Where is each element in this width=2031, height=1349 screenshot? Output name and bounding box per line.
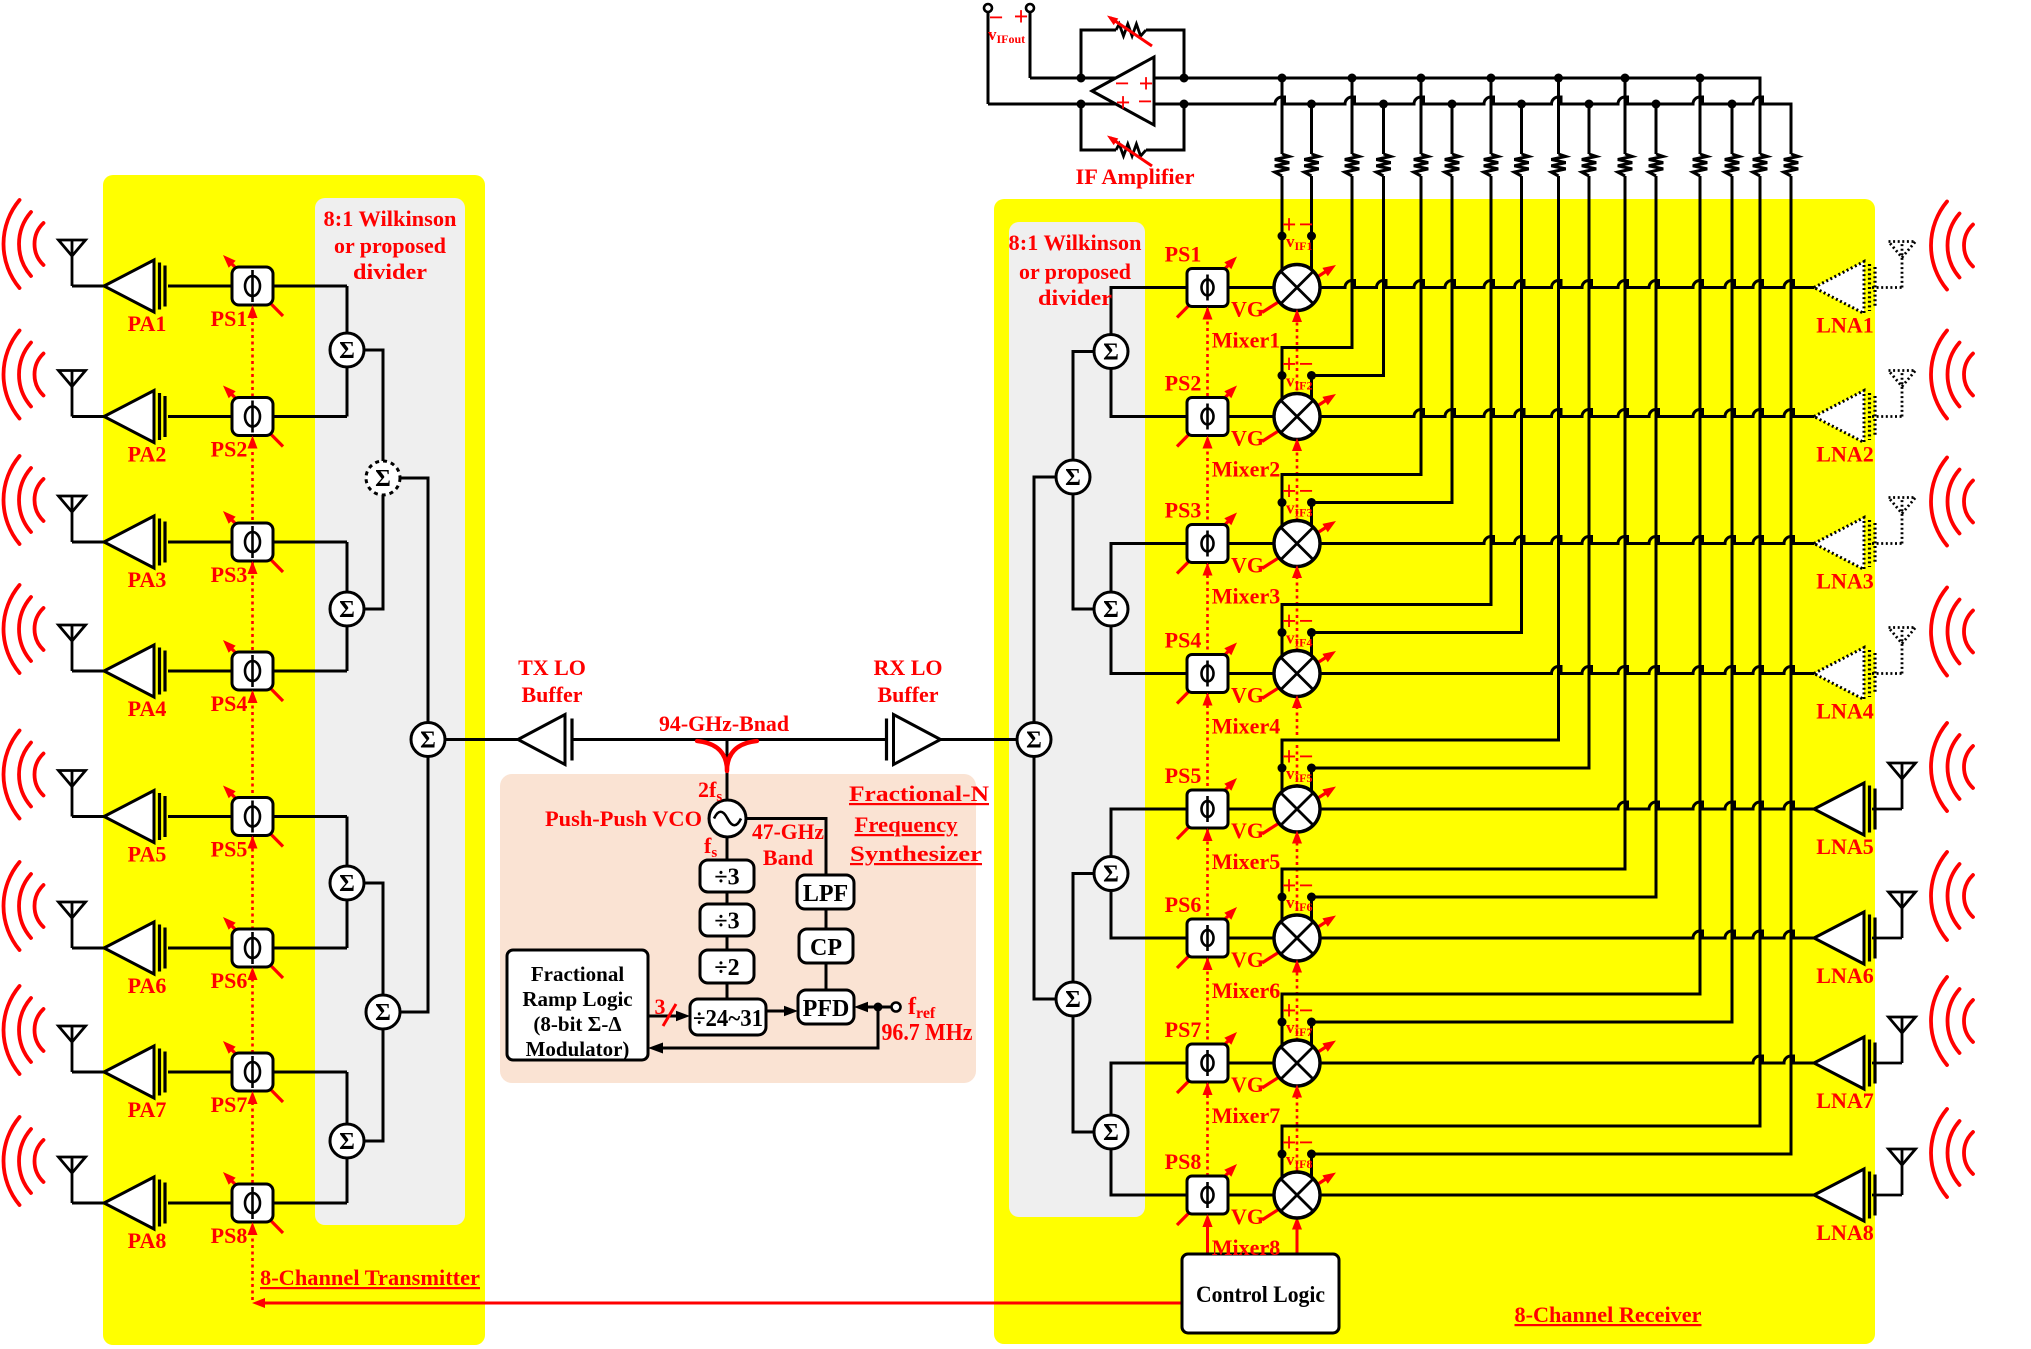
wire LNA1 to antenna [1872, 286, 1902, 289]
resistor IF + channel 8 [1753, 154, 1767, 176]
label LNA4 [1816, 699, 1873, 724]
svg-text:PS1: PS1 [211, 306, 248, 331]
phase shifter PS3 (TX) [223, 511, 283, 572]
feedback wire fref to fractional ramp logic [648, 1007, 878, 1054]
IF summing bus (- rail with hops) [1154, 97, 1791, 154]
wire vIF7 + route [1282, 176, 1700, 1049]
junction dot - rail column 7 [1728, 100, 1737, 109]
label Fractional-N Frequency Synthesizer [849, 781, 989, 866]
feedback resistor R top (variable) [1081, 16, 1184, 79]
svg-text:Fractional-N: Fractional-N [849, 781, 989, 806]
wire PS8 to TX combiner [273, 1202, 347, 1205]
CP block [799, 929, 853, 963]
IF amplifier output wire + (top) [1030, 77, 1156, 80]
radiated wave arcs TX 1 [4, 200, 44, 288]
red control line from Control Logic to TX phase shifters [252, 305, 1182, 1308]
label vIFout [988, 2, 1028, 46]
mixer Mixer2 [1262, 394, 1336, 442]
control arrowhead RX PS7 [1203, 1082, 1213, 1095]
svg-text:Modulator): Modulator) [526, 1037, 630, 1061]
svg-text:÷24~31: ÷24~31 [693, 1006, 763, 1032]
resistor IF - channel 8 [1784, 154, 1798, 176]
wire PA6 to PS6 [168, 947, 233, 950]
control arrowhead RX PS3 [1203, 563, 1213, 576]
svg-text:PS8: PS8 [1165, 1149, 1202, 1174]
wire LPF to CP [825, 909, 828, 929]
wire antenna 5 to PA5 [72, 815, 106, 818]
svg-text:PS3: PS3 [211, 562, 248, 587]
label TX LO buffer [518, 655, 586, 707]
wire TX mid combiners to root combiner [399, 478, 428, 1012]
vIFout terminal + [1026, 4, 1034, 78]
label VG mixer 8 [1231, 1204, 1264, 1229]
svg-text:8:1 Wilkinson: 8:1 Wilkinson [1009, 230, 1142, 255]
svg-text:−: − [1299, 607, 1314, 636]
combiner sigma TX leaf 2 [330, 592, 364, 626]
junction dot vIF8 - [1307, 1150, 1316, 1159]
low noise amplifier LNA4 [1814, 648, 1875, 700]
phase shifter PS4 (TX) [223, 640, 283, 701]
antenna TX 1 [59, 240, 86, 286]
label LNA1 [1816, 313, 1873, 338]
svg-text:Σ: Σ [1103, 1120, 1119, 1146]
label PA7 [128, 1097, 167, 1122]
antenna TX 4 [59, 625, 86, 671]
svg-text:LNA6: LNA6 [1816, 963, 1873, 988]
svg-text:Buffer: Buffer [877, 682, 938, 707]
wire antenna 8 to PA8 [72, 1202, 106, 1205]
junction dot + rail column 7 [1696, 74, 1705, 83]
wire antenna 2 to PA2 [72, 415, 106, 418]
label PA4 [128, 696, 167, 721]
wire + column 3 upper [1420, 78, 1423, 154]
svg-text:PFD: PFD [803, 996, 850, 1022]
wire vIF8 - route [1312, 176, 1792, 1181]
antenna RX 4 [1889, 628, 1916, 674]
svg-text:PS1: PS1 [1165, 242, 1202, 267]
svg-text:PA3: PA3 [128, 567, 167, 592]
svg-text:VG: VG [1231, 1072, 1264, 1097]
wire div3 to div2 [726, 936, 729, 950]
wire vIF2 + route [1282, 176, 1352, 403]
label PS5 RX [1165, 763, 1202, 788]
8-channel transmitter block background [103, 175, 485, 1345]
splitter sigma RX mid upper [1056, 460, 1090, 494]
label 96.7 MHz [882, 1020, 973, 1046]
resistor IF - channel 5 [1582, 154, 1596, 176]
incoming wave arcs RX 6 [1931, 852, 1973, 940]
combiner sigma TX mid upper (dashed) [366, 461, 400, 495]
splitter sigma RX leaf 2 [1094, 592, 1128, 626]
svg-text:Mixer5: Mixer5 [1212, 849, 1280, 874]
label Mixer7 [1212, 1103, 1280, 1128]
op-amp U1 IF amplifier [1092, 57, 1154, 125]
feedback resistor R bottom (variable) [1081, 104, 1184, 166]
wire LNA6 to antenna [1872, 937, 1902, 940]
label 2fs [698, 777, 722, 805]
radiated wave arcs TX 8 [4, 1117, 44, 1205]
junction dot + rail column 4 [1487, 74, 1496, 83]
antenna TX 8 [59, 1157, 86, 1203]
junction dot - rail column 4 [1517, 100, 1526, 109]
label VG mixer 2 [1231, 426, 1264, 451]
wire TX leaf combiner 2 [346, 542, 349, 671]
red dashed control line RX mixer column [1296, 309, 1299, 1216]
control logic block [1182, 1254, 1339, 1333]
svg-text:TX LO: TX LO [518, 655, 586, 680]
label Mixer4 [1212, 714, 1280, 739]
label vIF4 [1282, 607, 1314, 650]
resistor IF + channel 6 [1618, 154, 1632, 176]
RX LO buffer amp [887, 715, 941, 765]
mixer Mixer3 [1262, 521, 1336, 569]
resistor IF + channel 1 [1275, 154, 1289, 176]
label fref [908, 994, 936, 1022]
label LNA8 [1816, 1220, 1873, 1245]
svg-text:Buffer: Buffer [521, 682, 582, 707]
phase shifter PS3 (RX) [1177, 513, 1237, 574]
label vIF3 [1282, 477, 1314, 520]
wire PS7 to Mixer7 (LO) [1228, 1062, 1277, 1065]
svg-text:47-GHz: 47-GHz [752, 819, 824, 844]
phase shifter PS7 (RX) [1177, 1032, 1237, 1093]
incoming wave arcs RX 1 [1931, 202, 1973, 290]
junction dot + rail column 2 [1348, 74, 1357, 83]
junction dot vIF3 + [1278, 498, 1287, 507]
wire - column 4 upper [1520, 104, 1523, 154]
wire + column 4 upper [1490, 78, 1493, 154]
combiner sigma TX leaf 3 [330, 866, 364, 900]
control arrowhead TX PS5 [248, 836, 258, 849]
power amplifier PA6 [104, 922, 165, 974]
label VG mixer 1 [1231, 297, 1264, 322]
fractional ramp logic block [507, 950, 648, 1061]
wire - column 6 upper [1655, 104, 1658, 154]
svg-text:VG: VG [1231, 818, 1264, 843]
wire LNA8 to antenna [1872, 1194, 1902, 1197]
label PS6 RX [1165, 892, 1202, 917]
control arrowhead TX PS6 [248, 967, 258, 980]
junction dot vIF3 - [1307, 498, 1316, 507]
wire Mixer4 to LNA4 (RF row with crossover hops) [1318, 667, 1815, 674]
low noise amplifier LNA5 [1814, 783, 1875, 835]
svg-text:PS4: PS4 [1165, 628, 1202, 653]
label PA6 [128, 973, 167, 998]
resistor IF + channel 3 [1414, 154, 1428, 176]
svg-text:PS7: PS7 [1165, 1017, 1202, 1042]
wire Mixer2 to LNA2 (RF row with crossover hops) [1318, 410, 1815, 417]
svg-text:−: − [1299, 1128, 1314, 1157]
svg-text:PS2: PS2 [211, 437, 248, 462]
label VG mixer 6 [1231, 947, 1264, 972]
resistor IF - channel 4 [1514, 154, 1528, 176]
wire VCO to LPF [746, 819, 826, 876]
control arrowhead RX PS6 [1203, 957, 1213, 970]
resistor IF - channel 3 [1445, 154, 1459, 176]
svg-text:PA5: PA5 [128, 842, 167, 867]
fref input wire with arrow into PFD [854, 1002, 901, 1012]
svg-text:PS6: PS6 [211, 968, 248, 993]
svg-text:Σ: Σ [375, 1000, 391, 1026]
svg-text:Σ: Σ [375, 466, 391, 492]
phase shifter PS2 (RX) [1177, 386, 1237, 447]
wire LNA2 to antenna [1872, 415, 1902, 418]
divider /24~31 [690, 999, 766, 1035]
wire PS2 to TX combiner [273, 415, 347, 418]
label PA8 [128, 1228, 167, 1253]
power amplifier PA4 [104, 645, 165, 697]
svg-text:(8-bit Σ-Δ: (8-bit Σ-Δ [533, 1012, 621, 1036]
svg-text:Control Logic: Control Logic [1196, 1282, 1325, 1307]
label RX block title [1515, 1302, 1702, 1327]
svg-text:÷3: ÷3 [714, 909, 739, 935]
wire RX mid combiner 1 to leaves [1073, 352, 1094, 610]
antenna RX 5 [1889, 763, 1916, 809]
wire PS5 to TX combiner [273, 815, 347, 818]
label vIF6 [1282, 871, 1314, 914]
label Mixer1 [1212, 328, 1280, 353]
wire LNA4 to antenna [1872, 672, 1902, 675]
junction dot - rail column 2 [1379, 100, 1388, 109]
svg-text:Σ: Σ [1026, 728, 1042, 754]
svg-text:LPF: LPF [803, 881, 848, 907]
label RX LO buffer [873, 655, 942, 707]
vIFout terminal - [984, 4, 992, 104]
low noise amplifier LNA3 [1814, 518, 1875, 570]
svg-text:VG: VG [1231, 947, 1264, 972]
label PS7 TX [211, 1092, 248, 1117]
svg-text:PS7: PS7 [211, 1092, 248, 1117]
label PS2 RX [1165, 371, 1202, 396]
wire PA4 to PS4 [168, 670, 233, 673]
svg-text:96.7 MHz: 96.7 MHz [882, 1020, 973, 1046]
control arrowhead RX Mixer6 [1292, 960, 1302, 973]
wire - column 7 upper [1731, 104, 1734, 154]
junction dot vIF7 + [1278, 1018, 1287, 1027]
wire - column 3 upper [1451, 104, 1454, 154]
svg-text:PS2: PS2 [1165, 371, 1202, 396]
control arrowhead RX PS8 [1203, 1214, 1213, 1227]
svg-text:Ramp Logic: Ramp Logic [522, 987, 632, 1011]
wire TX leaf3/leaf4 to mid combiner [363, 883, 383, 1141]
label LNA7 [1816, 1088, 1873, 1113]
wire PA8 to PS8 [168, 1202, 233, 1205]
splitter sigma RX leaf 3 [1094, 857, 1128, 891]
wire PS3 to TX combiner [273, 541, 347, 544]
wire RX leaf combiner 3 to PS5/PS6 [1111, 809, 1187, 938]
svg-text:PA4: PA4 [128, 696, 167, 721]
wire - column 2 upper [1382, 104, 1385, 154]
label vIF5 [1282, 742, 1314, 785]
svg-text:8-Channel Receiver: 8-Channel Receiver [1515, 1302, 1702, 1327]
svg-text:+: + [1116, 88, 1131, 117]
wire PS7 to TX combiner [273, 1071, 347, 1074]
svg-text:Σ: Σ [339, 338, 355, 364]
wire Mixer3 to LNA3 (RF row with crossover hops) [1318, 537, 1815, 544]
junction dot vIF4 + [1278, 628, 1287, 637]
wire Mixer8 to LNA8 (RF row with crossover hops) [1318, 1194, 1815, 1197]
label PS1 RX [1165, 242, 1202, 267]
control arrowhead RX PS2 [1203, 436, 1213, 449]
svg-text:Mixer2: Mixer2 [1212, 457, 1280, 482]
junction dot - rail column 6 [1652, 100, 1661, 109]
label PA2 [128, 442, 167, 467]
wire PA1 to PS1 [168, 285, 233, 288]
label fs [704, 833, 717, 861]
svg-text:Mixer3: Mixer3 [1212, 584, 1280, 609]
phase shifter PS8 (TX) [223, 1172, 283, 1233]
svg-text:VG: VG [1231, 553, 1264, 578]
low noise amplifier LNA8 [1814, 1169, 1875, 1221]
resistor IF - channel 1 [1304, 154, 1318, 176]
svg-text:PA2: PA2 [128, 442, 167, 467]
label PS1 TX [211, 306, 248, 331]
control arrowhead RX Mixer5 [1292, 831, 1302, 844]
wire vIF5 - route [1312, 176, 1590, 795]
wire PS1 to Mixer1 (LO) [1228, 286, 1277, 289]
wire PS4 to Mixer4 (LO) [1228, 672, 1277, 675]
svg-text:PA8: PA8 [128, 1228, 167, 1253]
wire RX root combiner to mid combiners [1034, 477, 1056, 999]
control arrowhead TX PS1 [248, 305, 258, 318]
wire FRL to div24-31 (arrow, 3-bit bus) [648, 1004, 690, 1026]
LO distribution line TX root to RX root [444, 738, 1017, 741]
label PA1 [128, 311, 167, 336]
label Mixer3 [1212, 584, 1280, 609]
radiated wave arcs TX 7 [3, 986, 43, 1074]
svg-text:Frequency: Frequency [855, 812, 958, 837]
phase shifter PS5 (RX) [1177, 778, 1237, 839]
label PS8 TX [211, 1223, 248, 1248]
phase shifter PS6 (RX) [1177, 907, 1237, 968]
TX 8:1 Wilkinson divider block background [315, 198, 465, 1225]
wire vIF4 - route [1312, 176, 1522, 660]
svg-text:divider: divider [353, 259, 427, 284]
svg-text:+: + [1014, 2, 1029, 31]
svg-text:Σ: Σ [1103, 340, 1119, 366]
divider /3 (first) [700, 860, 754, 892]
junction dot vIF5 - [1307, 764, 1316, 773]
red junction marks 94GHz feed [697, 741, 757, 771]
label vIF2 [1282, 350, 1314, 393]
svg-text:PA7: PA7 [128, 1097, 167, 1122]
IF amplifier output wire - (bottom) [988, 103, 1156, 106]
wire PA2 to PS2 [168, 415, 233, 418]
control arrowhead RX Mixer1 [1292, 309, 1302, 322]
svg-text:Σ: Σ [1103, 597, 1119, 623]
svg-text:Mixer6: Mixer6 [1212, 978, 1280, 1003]
wire div24-31 to PFD (arrow) [766, 1006, 798, 1016]
mixer Mixer8 [1262, 1172, 1336, 1220]
power amplifier PA7 [104, 1046, 165, 1098]
svg-text:VG: VG [1231, 426, 1264, 451]
svg-text:÷3: ÷3 [714, 865, 739, 891]
label RX divider [1009, 230, 1142, 310]
junction dots IF amp feedback [1077, 74, 1189, 109]
label Mixer6 [1212, 978, 1280, 1003]
label TX block title [260, 1265, 480, 1290]
control arrowhead RX Mixer7 [1292, 1085, 1302, 1098]
svg-text:LNA4: LNA4 [1816, 699, 1873, 724]
svg-text:94-GHz-Bnad: 94-GHz-Bnad [659, 711, 789, 736]
label 94-GHz-Bnad [659, 711, 789, 736]
radiated wave arcs TX 6 [3, 862, 43, 950]
svg-text:CP: CP [810, 935, 842, 961]
svg-text:LNA1: LNA1 [1816, 313, 1873, 338]
junction dot vIF4 - [1307, 628, 1316, 637]
wire vIF3 + route [1282, 176, 1421, 530]
phase shifter PS6 (TX) [223, 917, 283, 978]
label PS3 TX [211, 562, 248, 587]
radiated wave arcs TX 2 [4, 331, 44, 419]
label LNA6 [1816, 963, 1873, 988]
radiated wave arcs TX 4 [3, 585, 43, 673]
junction dot vIF5 + [1278, 764, 1287, 773]
wire antenna 3 to PA3 [72, 541, 106, 544]
low noise amplifier LNA6 [1814, 912, 1875, 964]
combiner sigma TX root [411, 723, 445, 757]
antenna TX 7 [59, 1026, 86, 1072]
control arrowhead RX Mixer4 [1292, 695, 1302, 708]
junction dot - rail column 5 [1585, 100, 1594, 109]
svg-text:PS5: PS5 [1165, 763, 1202, 788]
junction dot + rail column 6 [1621, 74, 1630, 83]
label TX divider [324, 206, 457, 284]
wire vIF5 + route [1282, 176, 1559, 795]
PFD block [798, 990, 854, 1024]
wire TX leaf1/leaf2 to mid combiner [363, 350, 383, 609]
phase shifter PS8 (RX) [1177, 1164, 1237, 1225]
svg-text:Σ: Σ [1065, 465, 1081, 491]
wire PS5 to Mixer5 (LO) [1228, 808, 1277, 811]
junction dot + rail column 1 [1278, 74, 1287, 83]
wire - column 5 upper [1588, 104, 1591, 154]
antenna RX 3 [1889, 498, 1916, 544]
fractional-N synthesizer block background [500, 774, 976, 1083]
junction dot - rail column 3 [1448, 100, 1457, 109]
junction dot vIF1 - [1307, 232, 1316, 241]
junction dot vIF7 - [1307, 1018, 1316, 1027]
splitter sigma RX mid lower [1056, 982, 1090, 1016]
red control arrow Control Logic to PS8 [1203, 1214, 1213, 1254]
label 3 (bus width) [655, 994, 666, 1019]
junction dot vIF2 - [1307, 371, 1316, 380]
wire PS1 to TX combiner [273, 285, 347, 288]
svg-text:PS3: PS3 [1165, 498, 1202, 523]
svg-text:LNA3: LNA3 [1816, 569, 1873, 594]
power amplifier PA1 [104, 260, 165, 312]
phase shifter PS7 (TX) [223, 1041, 283, 1102]
resistor IF - channel 2 [1376, 154, 1390, 176]
junction dot vIF6 + [1278, 893, 1287, 902]
antenna TX 2 [59, 371, 86, 417]
svg-text:Σ: Σ [339, 871, 355, 897]
svg-text:PS8: PS8 [211, 1223, 248, 1248]
wire antenna 4 to PA4 [72, 670, 106, 673]
label PS8 RX [1165, 1149, 1202, 1174]
phase shifter PS1 (TX) [223, 255, 283, 316]
combiner sigma TX leaf 4 [330, 1124, 364, 1158]
antenna RX 7 [1889, 1017, 1916, 1063]
incoming wave arcs RX 2 [1931, 331, 1973, 419]
svg-text:LNA7: LNA7 [1816, 1088, 1873, 1113]
svg-text:Σ: Σ [339, 597, 355, 623]
control arrowhead RX PS1 [1203, 307, 1213, 320]
wire + column 1 upper [1281, 78, 1284, 154]
svg-text:−: − [1299, 210, 1314, 239]
svg-text:−: − [1299, 996, 1314, 1025]
svg-text:LNA8: LNA8 [1816, 1220, 1873, 1245]
